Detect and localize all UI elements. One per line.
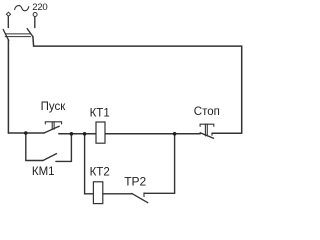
- svg-text:ТР2: ТР2: [124, 175, 146, 189]
- svg-text:Пуск: Пуск: [41, 101, 67, 113]
- svg-text:220: 220: [32, 2, 47, 13]
- svg-text:Стоп: Стоп: [194, 106, 220, 118]
- svg-text:КТ2: КТ2: [90, 167, 110, 179]
- svg-text:КМ1: КМ1: [32, 166, 55, 178]
- svg-text:КТ1: КТ1: [90, 108, 110, 120]
